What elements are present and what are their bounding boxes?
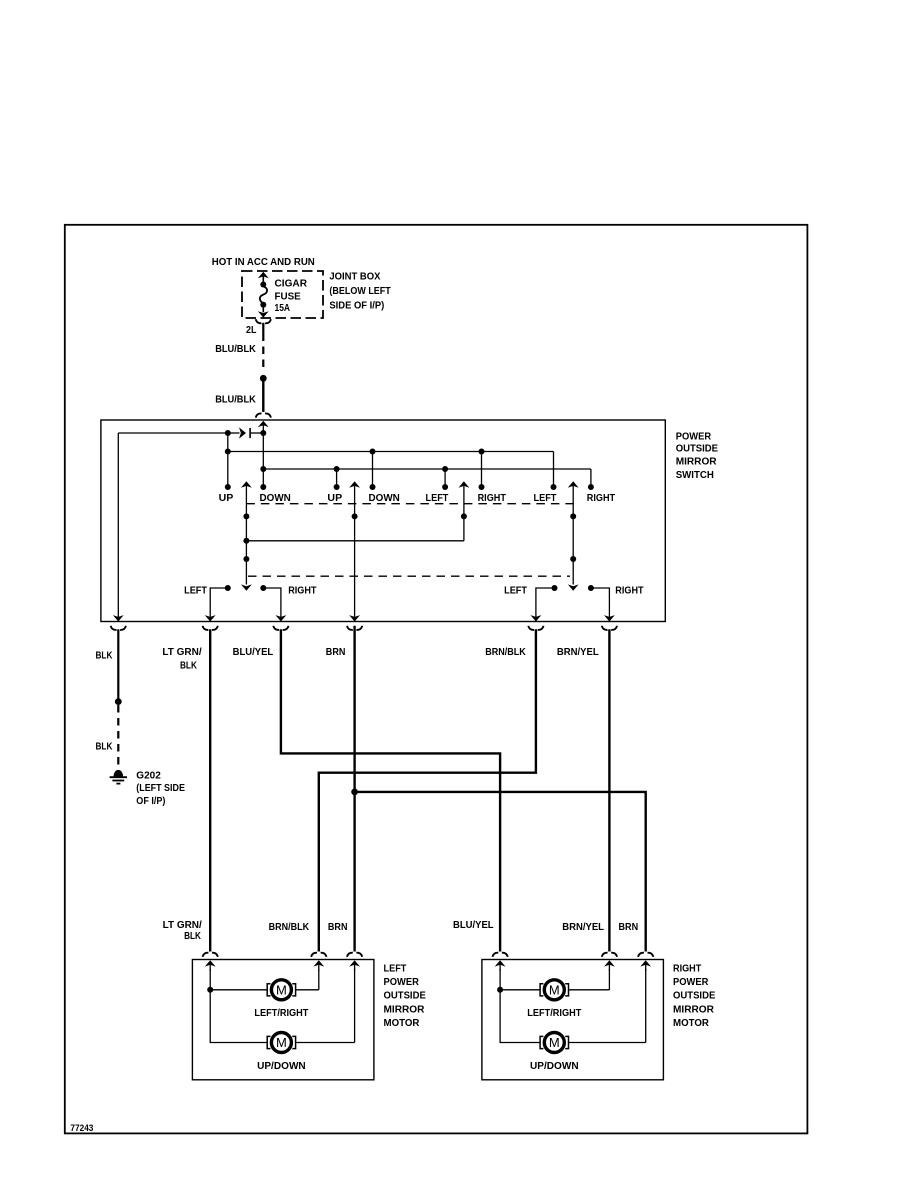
svg-text:SIDE OF I/P): SIDE OF I/P)	[329, 300, 384, 312]
wire BRN branch right	[355, 792, 646, 952]
svg-text:FUSE: FUSE	[275, 290, 301, 302]
svg-text:LEFT/RIGHT: LEFT/RIGHT	[527, 1007, 582, 1019]
svg-text:G202: G202	[136, 770, 161, 782]
wiper arrow UP/DOWN left	[241, 481, 252, 487]
svg-text:2L: 2L	[246, 324, 257, 336]
wire BLU/BLK dashed from 2L	[262, 323, 264, 334]
svg-text:JOINT BOX: JOINT BOX	[329, 271, 380, 283]
svg-text:MIRROR: MIRROR	[676, 455, 717, 467]
svg-text:OUTSIDE: OUTSIDE	[676, 443, 718, 455]
svg-text:BLK: BLK	[180, 659, 197, 671]
select arrow left mirror	[245, 559, 247, 585]
svg-text:POWER: POWER	[673, 976, 709, 988]
pin arrows into motor	[205, 960, 216, 966]
splice node	[260, 375, 267, 382]
svg-text:BRN: BRN	[328, 921, 348, 933]
terminal DOWN 1	[262, 433, 264, 487]
svg-text:POWER: POWER	[384, 976, 420, 988]
motor M up/down left	[271, 1033, 291, 1053]
svg-text:LEFT: LEFT	[184, 585, 207, 597]
svg-text:M: M	[549, 1035, 560, 1050]
wire BLK to splice	[117, 629, 119, 700]
right power outside mirror motor box	[482, 960, 664, 1080]
wire BLK inside switch	[117, 433, 119, 622]
wiper arrow UP/DOWN right	[349, 481, 360, 487]
cigar fuse 15A symbol	[258, 272, 269, 278]
wire BLK dashed to ground	[117, 705, 119, 770]
svg-text:BLU/BLK: BLU/BLK	[215, 394, 256, 406]
border frame	[65, 225, 808, 1134]
terminal RIGHT 2	[590, 469, 592, 487]
svg-text:RIGHT: RIGHT	[478, 492, 507, 504]
select contact LEFT	[552, 585, 558, 591]
svg-text:BLK: BLK	[96, 649, 113, 661]
motor M left/right right	[500, 989, 540, 991]
svg-text:OUTSIDE: OUTSIDE	[384, 990, 426, 1002]
svg-text:UP: UP	[327, 492, 342, 504]
pin arrow into switch	[258, 421, 269, 427]
svg-text:DOWN: DOWN	[260, 492, 291, 504]
terminal LEFT 2	[553, 452, 555, 488]
select arrow right mirror	[572, 559, 574, 585]
svg-text:MOTOR: MOTOR	[384, 1017, 420, 1029]
svg-text:HOT IN ACC AND RUN: HOT IN ACC AND RUN	[212, 256, 315, 268]
wire BRN left	[353, 626, 355, 952]
svg-text:MIRROR: MIRROR	[384, 1003, 425, 1015]
svg-text:BLK: BLK	[96, 740, 113, 752]
motor M up/down right	[544, 1033, 564, 1053]
svg-text:OF I/P): OF I/P)	[136, 795, 165, 807]
wire BLU/BLK solid to switch	[262, 382, 264, 413]
terminal RIGHT 1	[481, 452, 483, 488]
svg-text:BRN: BRN	[326, 646, 346, 658]
svg-text:BLU/BLK: BLU/BLK	[215, 343, 256, 355]
svg-text:RIGHT: RIGHT	[587, 492, 616, 504]
select contact RIGHT	[260, 585, 266, 591]
svg-text:SWITCH: SWITCH	[676, 469, 714, 481]
wire LT GRN/BLK	[209, 629, 211, 951]
connector socket at switch	[256, 413, 271, 417]
joint box (dashed)	[242, 271, 323, 318]
select contact RIGHT	[588, 585, 594, 591]
bus 2	[263, 468, 591, 470]
wire to motors common	[500, 969, 540, 1043]
splice node	[115, 698, 122, 705]
splice node BRN	[351, 789, 358, 796]
ground G202	[114, 770, 123, 776]
wire BRN/BLK	[319, 629, 536, 951]
svg-text:RIGHT: RIGHT	[288, 585, 317, 597]
svg-text:UP/DOWN: UP/DOWN	[530, 1060, 579, 1072]
svg-text:RIGHT: RIGHT	[673, 962, 702, 974]
svg-text:77243: 77243	[70, 1123, 93, 1133]
svg-text:(LEFT SIDE: (LEFT SIDE	[136, 782, 185, 794]
svg-text:BRN/YEL: BRN/YEL	[562, 921, 604, 933]
svg-text:LEFT: LEFT	[534, 492, 557, 504]
terminal UP 1	[227, 433, 229, 487]
svg-text:BRN: BRN	[619, 921, 639, 933]
connector sockets below switch	[111, 626, 126, 630]
wire to motors common	[210, 969, 267, 1043]
connector sockets above motor	[493, 953, 508, 957]
svg-text:BLU/YEL: BLU/YEL	[453, 919, 494, 931]
pin arrows into motor	[495, 960, 506, 966]
svg-text:BRN/YEL: BRN/YEL	[557, 646, 599, 658]
svg-text:BRN/BLK: BRN/BLK	[269, 921, 310, 933]
svg-text:LEFT: LEFT	[504, 585, 527, 597]
svg-text:LEFT/RIGHT: LEFT/RIGHT	[254, 1007, 309, 1019]
svg-text:UP/DOWN: UP/DOWN	[257, 1060, 306, 1072]
svg-text:M: M	[276, 983, 287, 998]
bus 1	[228, 451, 554, 453]
svg-text:OUTSIDE: OUTSIDE	[673, 990, 715, 1002]
svg-text:BLU/YEL: BLU/YEL	[233, 646, 274, 658]
terminal DOWN 2	[372, 452, 374, 488]
select contact LEFT	[225, 585, 231, 591]
svg-text:MOTOR: MOTOR	[673, 1017, 709, 1029]
svg-text:MIRROR: MIRROR	[673, 1003, 714, 1015]
svg-text:BLK: BLK	[184, 930, 201, 942]
svg-text:(BELOW LEFT: (BELOW LEFT	[329, 285, 391, 297]
svg-text:POWER: POWER	[676, 430, 712, 442]
feed wire with contact	[118, 432, 228, 434]
connector sockets above motor	[203, 953, 218, 957]
svg-text:BRN/BLK: BRN/BLK	[485, 646, 526, 658]
wire BRN/YEL	[608, 629, 610, 951]
terminal LEFT 1	[444, 469, 446, 487]
connector 2L socket	[256, 319, 271, 323]
wire wiper to select pole	[246, 540, 464, 542]
svg-text:DOWN: DOWN	[369, 492, 400, 504]
svg-text:M: M	[549, 983, 560, 998]
svg-text:15A: 15A	[275, 302, 291, 314]
mechanical link lower (dashed)	[248, 575, 570, 577]
svg-text:LT GRN/: LT GRN/	[162, 646, 201, 658]
pin arrows out of switch	[113, 615, 124, 621]
wiper arrow LEFT/RIGHT 1	[459, 481, 470, 487]
svg-text:LEFT: LEFT	[426, 492, 449, 504]
left power outside mirror motor box	[192, 960, 374, 1080]
svg-text:UP: UP	[219, 492, 234, 504]
terminal UP 2	[336, 469, 338, 487]
svg-text:M: M	[276, 1035, 287, 1050]
wire BLU/YEL	[281, 629, 500, 951]
svg-text:LEFT: LEFT	[384, 962, 407, 974]
svg-text:RIGHT: RIGHT	[615, 585, 644, 597]
wiper arrow LEFT/RIGHT 2	[568, 481, 579, 487]
power outside mirror switch box	[101, 420, 665, 622]
motor M left/right left	[210, 989, 267, 991]
svg-text:CIGAR: CIGAR	[275, 277, 308, 289]
mechanical link (dashed)	[246, 503, 573, 505]
